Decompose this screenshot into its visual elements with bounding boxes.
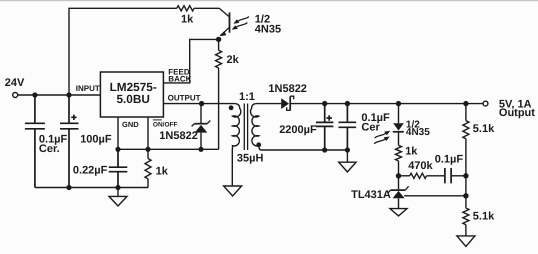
terminal 5V output [483,101,488,106]
junction ON/OFF pin node [145,147,150,152]
svg-text:2200µF: 2200µF [279,124,317,136]
ground G1 [109,188,127,207]
svg-text:ON/OFF: ON/OFF [153,121,178,128]
svg-text:470k: 470k [408,160,433,172]
resistor R7 5.1k [463,208,469,225]
svg-text:Output: Output [499,107,535,119]
capacitor C4 2200uF electrolytic [316,104,333,150]
wire R4 to TL431 cathode [398,161,400,189]
junction ground line / G3 [345,147,350,152]
phase dot primary [229,105,234,110]
svg-text:INPUT: INPUT [76,84,100,93]
diode D1 1N5822 catch schottky [192,104,211,150]
svg-text:1k: 1k [181,14,194,26]
svg-text:1k: 1k [156,165,169,177]
op-amp U1 LM2575-5.0BU regulator box [100,72,163,117]
svg-text:0.1µF: 0.1µF [435,154,464,166]
svg-text:35µH: 35µH [237,152,264,164]
svg-text:1N5822: 1N5822 [159,130,198,142]
svg-text:2k: 2k [227,54,240,66]
wire IC ground line [118,148,219,150]
junction FB / emitter / R2 [216,37,221,42]
capacitor C3 0.22uF [109,149,128,187]
svg-text:100µF: 100µF [80,133,112,145]
wire R1 to opto collector [194,7,219,9]
wire node to R5 [399,175,410,177]
capacitor C6 0.1uF [445,168,466,183]
junction bus / C5 [345,101,350,106]
terminal 24V input [13,93,18,98]
ground G3 [339,150,356,172]
ground G2 transformer [224,186,242,196]
svg-text:TL431A: TL431A [351,189,391,201]
ground G5 [457,225,475,247]
wire R2 down to ground line (crosses output line) [218,68,220,149]
junction input / C2 / feedback loop [66,92,71,97]
wire output bus [291,103,483,105]
wire ON/OFF pin [147,117,149,149]
resistor R2 2k [216,50,222,68]
capacitor C5 0.1uF ceramic [339,104,357,150]
junction bus / C4 [322,101,327,106]
wire ON/OFF node to R3 [147,149,149,158]
svg-text:5.1k: 5.1k [473,211,495,223]
junction ref / divider [463,193,468,198]
svg-text:BACK: BACK [168,74,191,83]
transistor Q1 1/2 4N35 phototransistor [219,8,229,36]
svg-text:1:1: 1:1 [239,91,255,103]
junction input / C1 [32,92,37,97]
svg-text:4N35: 4N35 [406,127,430,138]
svg-text:4N35: 4N35 [255,24,281,36]
svg-text:GND: GND [122,120,139,129]
junction rail / ground stem [115,185,120,190]
svg-text:Cer: Cer [361,122,380,134]
wire FB pin to emitter node [163,39,218,83]
resistor R3 1k [145,159,151,179]
wire GND pin [117,117,119,149]
wire feedback loop from input node to R1 [69,8,177,95]
junction C6 / divider [463,173,468,178]
junction D1 anode node [198,147,203,152]
svg-text:1k: 1k [405,146,418,158]
transformer T1 primary winding 35uH [232,104,241,186]
junction rail / C2 [66,185,71,190]
diode D2 1N5822 output schottky [281,96,294,110]
wire emitter node to R2 [218,39,220,50]
resistor R1 1k [177,6,194,11]
junction bus / D3 LED [396,101,401,106]
svg-text:Cer.: Cer. [39,143,60,155]
ground G4 TL431 [390,209,407,216]
wire TL431 ref to divider [404,195,466,197]
transformer T1 secondary winding [250,104,260,150]
wire secondary ground line [261,149,348,151]
light arrows into Q1 [232,17,249,30]
junction R4 / R5 node [396,173,401,178]
phase dot secondary [256,142,261,147]
wire R5 to C6 [427,175,445,177]
wire divider top [465,104,467,121]
resistor R5 470k [410,173,427,178]
junction bus / divider [463,101,468,106]
transformer T1 core [244,104,247,151]
svg-text:5.1k: 5.1k [473,123,495,135]
junction GND pin node [115,147,120,152]
svg-text:24V: 24V [5,77,25,89]
diode D3 LED 1/2 4N35 [393,104,404,146]
wire R3 to rail [147,179,149,188]
junction C4 bottom [322,147,327,152]
wire bottom ground rail [35,187,148,189]
capacitor C2 100uF electrolytic [60,95,79,188]
transistor U2 TL431A shunt reference [388,186,409,208]
capacitor C1 0.1uF ceramic [25,95,45,188]
wire OUTPUT pin to transformer primary [163,103,235,105]
svg-text:1N5822: 1N5822 [268,83,307,95]
svg-text:OUTPUT: OUTPUT [168,93,201,102]
junction OUTPUT / D1 cathode [199,101,204,106]
resistor R6 5.1k [463,121,469,139]
light arrows from D3 LED [374,131,390,144]
wire secondary top to D2 [256,103,281,105]
svg-text:0.22µF: 0.22µF [73,164,108,176]
svg-text:5.0BU: 5.0BU [116,92,149,106]
resistor R4 1k [396,145,402,161]
wire 24V input line [18,94,101,96]
wire divider middle [465,139,467,208]
